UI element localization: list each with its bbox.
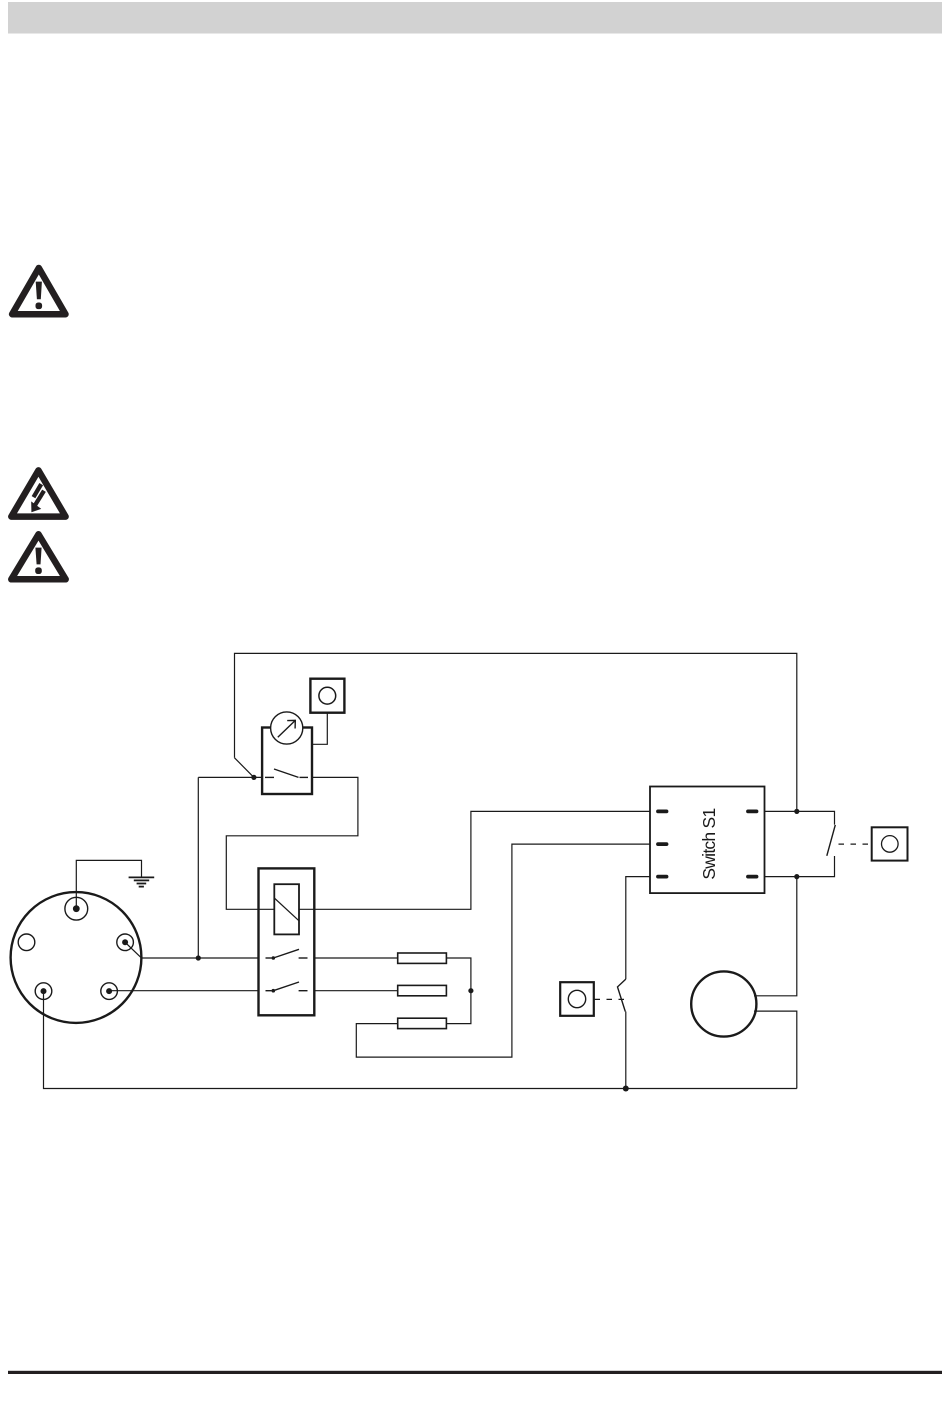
junction node A (thermostat feed): [251, 775, 256, 780]
wire S1 row3 left to manual switch: [626, 877, 650, 980]
manual switch hook: [618, 979, 626, 1011]
resistor R3: [398, 1018, 447, 1028]
indicator lamp L1: [310, 679, 344, 713]
wire plug bottom-left to bottom rail: [44, 991, 797, 1088]
plug pin right: [117, 934, 134, 951]
junction node C (resistor mid): [468, 988, 473, 993]
plug pin top: [65, 897, 88, 920]
motor M1: [691, 971, 756, 1036]
junction node F (bottom rail): [623, 1086, 629, 1092]
push button B2: [560, 982, 594, 1016]
footer rule: [8, 1371, 942, 1374]
relay coil diagonal: [274, 898, 299, 921]
wire coil right to S1 row1: [299, 811, 650, 909]
wire relay row1 to resistor R1: [314, 957, 397, 959]
wire S1 row3 right to aux switch: [765, 856, 835, 877]
wire plug pin to relay row1: [125, 942, 258, 958]
relay contact 1: [266, 949, 308, 958]
push button B1: [872, 827, 908, 860]
wire motor bottom to bottom rail: [754, 1011, 797, 1088]
junction node E (S1 row3 right): [794, 874, 799, 879]
wire R3 left loop to S1 row2: [356, 844, 650, 1057]
warning triangle W3 (exclamation): [11, 534, 65, 579]
wire lamp to thermostat: [312, 713, 327, 745]
wire plug pin to relay row2: [109, 990, 258, 992]
resistor R2: [398, 985, 447, 995]
plug pin left (empty): [18, 934, 35, 951]
lightning bolt: [32, 484, 44, 512]
wire top rail: [235, 653, 797, 811]
header gray bar: [8, 2, 942, 34]
thermostat TH1 body: [262, 728, 312, 795]
thermostat switch blade: [274, 769, 299, 777]
plug pin bottom-right: [101, 983, 118, 1000]
svg-text:Switch S1: Switch S1: [699, 809, 719, 880]
junction node B (relay row1): [196, 955, 201, 960]
aux door switch blade: [827, 825, 836, 856]
switch S1 box: [650, 787, 765, 894]
junction node D (S1 row1 right): [794, 809, 799, 814]
warning triangle W2 (lightning): [11, 470, 65, 516]
relay K1 body: [259, 868, 315, 1015]
S1 pins right: [748, 811, 757, 876]
wire junction to motor top: [754, 877, 797, 996]
wire relay row2 to resistor R2: [314, 990, 397, 992]
relay coil: [274, 884, 299, 934]
resistor R1: [398, 953, 447, 963]
wire diagonal into thermostat node: [235, 758, 254, 778]
dashed link to button B1: [839, 843, 872, 845]
wire ground pin: [76, 860, 141, 908]
connector plug P1 outline: [11, 892, 142, 1023]
wire thermostat right to relay coil feed: [226, 777, 358, 909]
warning triangle W1 (exclamation): [12, 268, 65, 314]
thermostat dial circle: [271, 712, 303, 744]
wire R1 right to junction: [446, 958, 471, 1024]
thermostat contact stubs: [265, 776, 308, 778]
wire S1 row1 right to aux switch: [765, 811, 835, 824]
plug pin bottom-left: [35, 983, 52, 1000]
relay contact 2 pivot: [272, 989, 276, 993]
wire thermostat row left: [198, 776, 262, 778]
wire manual switch bottom: [625, 1012, 627, 1089]
thermostat dial arrow: [278, 720, 296, 737]
dashed link to button B2: [595, 998, 627, 1000]
ground symbol: [129, 877, 155, 886]
relay contact 1 pivot: [272, 956, 276, 960]
S1 pins left: [658, 811, 667, 876]
wire vertical junction to relay row1: [197, 777, 199, 958]
relay contact 2: [266, 982, 308, 991]
